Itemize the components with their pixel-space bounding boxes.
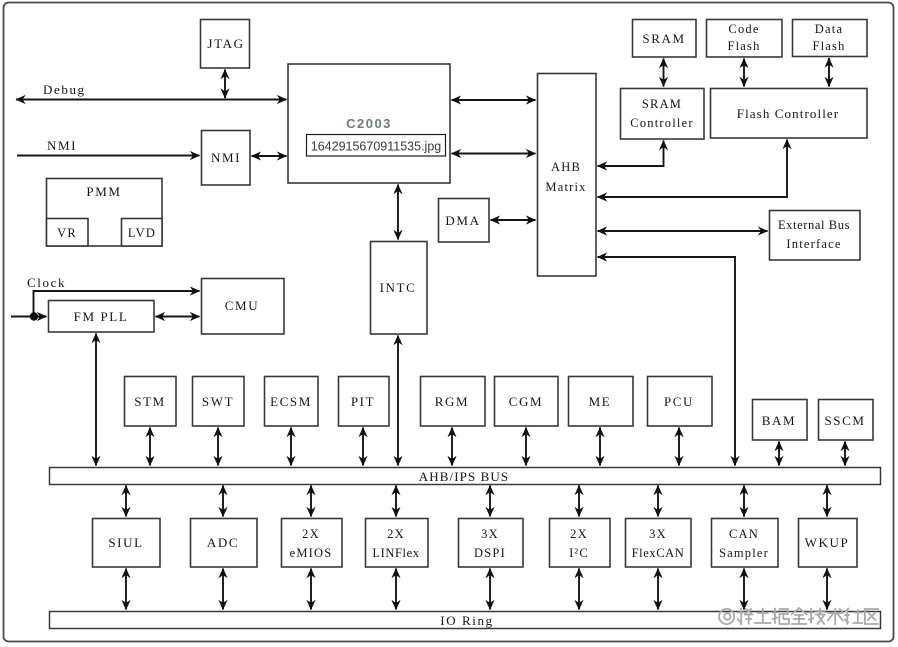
wire IPS bus to FlexCAN bbox=[657, 486, 659, 517]
block 2X LINFlex bbox=[366, 519, 429, 568]
svg-text:AHB/IPS BUS: AHB/IPS BUS bbox=[419, 469, 510, 484]
wire SRAM to SRAM Controller bbox=[663, 59, 665, 87]
svg-text:AHB: AHB bbox=[551, 160, 581, 174]
block WKUP bbox=[799, 519, 858, 568]
svg-text:Flash: Flash bbox=[727, 39, 760, 53]
svg-text:Interface: Interface bbox=[786, 237, 841, 251]
wire SSCM to IPS bus bbox=[844, 442, 846, 466]
bus IO Ring bar bbox=[50, 612, 881, 629]
svg-text:3X: 3X bbox=[481, 527, 499, 541]
wire BAM to IPS bus bbox=[778, 442, 780, 466]
wire JTAG to Debug bus bbox=[224, 70, 226, 99]
wire SRAM Controller to AHB bbox=[598, 141, 664, 167]
wire IPS bus to WKUP bbox=[826, 486, 828, 517]
block 3X DSPI bbox=[459, 519, 524, 568]
wire IPS bus to CAN Sampler bbox=[743, 486, 745, 517]
block ECSM bbox=[265, 377, 319, 427]
svg-text:SSCM: SSCM bbox=[824, 413, 865, 428]
svg-text:Clock: Clock bbox=[27, 275, 66, 290]
wire ME to IPS bus bbox=[599, 428, 601, 466]
block CMU bbox=[202, 279, 285, 335]
wire AHB to External Bus Interface bbox=[598, 230, 768, 232]
wire FMPLL to IPS bus bbox=[95, 334, 97, 466]
wire NMI input bbox=[17, 155, 200, 157]
wire PCU to IPS bus bbox=[678, 428, 680, 466]
block 2X eMIOS bbox=[282, 519, 343, 568]
svg-text:RGM: RGM bbox=[435, 394, 469, 409]
svg-text:CMU: CMU bbox=[225, 298, 259, 313]
wire IPS bus to eMIOS bbox=[310, 486, 312, 517]
wire C2003 to INTC bbox=[397, 185, 399, 240]
svg-text:eMIOS: eMIOS bbox=[290, 546, 333, 560]
wire FMPLL to CMU bbox=[156, 316, 200, 318]
wire SIUL to IO Ring bbox=[125, 569, 127, 610]
svg-text:External Bus: External Bus bbox=[778, 218, 850, 232]
svg-text:Code: Code bbox=[728, 22, 759, 36]
svg-text:Flash Controller: Flash Controller bbox=[737, 106, 839, 121]
bus AHB/IPS BUS bar bbox=[50, 468, 881, 485]
svg-text:Flash: Flash bbox=[812, 39, 845, 53]
wire CAN Sampler to IO Ring bbox=[743, 569, 745, 610]
svg-text:SRAM: SRAM bbox=[642, 31, 685, 46]
wire Code Flash to Flash Controller bbox=[743, 59, 745, 87]
wire NMI to C2003 bbox=[252, 155, 287, 157]
wire AHB to IPS bus riser bbox=[598, 257, 736, 466]
svg-text:PMM: PMM bbox=[86, 184, 121, 199]
block LVD bbox=[122, 219, 163, 247]
svg-text:Matrix: Matrix bbox=[545, 180, 586, 194]
wire C2003 to AHB lower bbox=[452, 153, 536, 155]
wire CGM to IPS bus bbox=[525, 428, 527, 466]
wire DSPI to IO Ring bbox=[489, 569, 491, 610]
wire Debug bus bbox=[16, 99, 287, 101]
svg-text:FlexCAN: FlexCAN bbox=[632, 546, 685, 560]
block ME bbox=[569, 377, 634, 427]
watermark juejin community bbox=[719, 608, 878, 625]
wire RGM to IPS bus bbox=[451, 428, 453, 466]
svg-text:BAM: BAM bbox=[762, 413, 796, 428]
wire PIT to IPS bus bbox=[362, 428, 364, 466]
svg-text:1642915670911535.jpg: 1642915670911535.jpg bbox=[311, 140, 442, 154]
wire Flash Controller to AHB bbox=[598, 140, 788, 198]
block C2003 core bbox=[288, 64, 450, 183]
wire ECSM to IPS bus bbox=[290, 428, 292, 466]
block RGM bbox=[421, 377, 486, 427]
block BAM bbox=[753, 400, 808, 441]
block PMM bbox=[47, 179, 163, 247]
block SRAM Controller bbox=[621, 89, 705, 140]
block STM bbox=[125, 377, 177, 427]
label broken image filename bbox=[307, 135, 446, 157]
svg-text:WKUP: WKUP bbox=[805, 535, 850, 550]
wire crystal input bbox=[11, 316, 47, 318]
svg-text:2X: 2X bbox=[387, 527, 405, 541]
block JTAG bbox=[201, 20, 250, 69]
wire ADC to IO Ring bbox=[222, 569, 224, 610]
svg-text:STM: STM bbox=[134, 394, 166, 409]
block DMA bbox=[439, 199, 490, 243]
svg-text:3X: 3X bbox=[649, 527, 667, 541]
wire eMIOS to IO Ring bbox=[310, 569, 312, 610]
wire IPS bus to ADC bbox=[222, 486, 224, 517]
svg-text:INTC: INTC bbox=[380, 280, 417, 295]
wire Data Flash to Flash Controller bbox=[828, 58, 830, 87]
svg-text:FM PLL: FM PLL bbox=[74, 309, 129, 324]
block SIUL bbox=[93, 519, 161, 568]
wire IPS bus to I2C bbox=[578, 486, 580, 517]
svg-text:NMI: NMI bbox=[47, 138, 77, 153]
svg-text:C2003: C2003 bbox=[346, 116, 392, 131]
svg-text:SRAM: SRAM bbox=[642, 97, 682, 111]
svg-text:ADC: ADC bbox=[207, 535, 239, 550]
block AHB Matrix bbox=[538, 74, 597, 277]
svg-text:2X: 2X bbox=[302, 527, 320, 541]
svg-text:Data: Data bbox=[815, 22, 843, 36]
svg-text:2X: 2X bbox=[570, 527, 588, 541]
wire INTC to IPS bus bbox=[397, 336, 399, 466]
svg-text:LVD: LVD bbox=[128, 226, 156, 240]
svg-text:CAN: CAN bbox=[729, 527, 759, 541]
block SWT bbox=[193, 377, 245, 427]
wire IPS bus to LINFlex bbox=[395, 486, 397, 517]
wire IPS bus to SIUL bbox=[125, 486, 127, 517]
svg-text:SWT: SWT bbox=[202, 394, 234, 409]
block PIT bbox=[339, 377, 390, 427]
wire DMA to AHB bbox=[491, 219, 536, 221]
svg-text:SIUL: SIUL bbox=[108, 535, 143, 550]
block INTC bbox=[371, 242, 428, 335]
block CGM bbox=[495, 377, 559, 427]
svg-text:PIT: PIT bbox=[351, 394, 375, 409]
svg-text:DMA: DMA bbox=[445, 213, 480, 228]
block Data Flash bbox=[793, 20, 868, 57]
svg-text:I²C: I²C bbox=[569, 546, 589, 560]
svg-text:Sampler: Sampler bbox=[719, 546, 769, 560]
wire STM to IPS bus bbox=[149, 428, 151, 466]
block External Bus Interface bbox=[770, 211, 861, 261]
svg-text:Debug: Debug bbox=[43, 82, 86, 97]
block ADC bbox=[191, 519, 258, 568]
wire IPS bus to DSPI bbox=[489, 486, 491, 517]
svg-text:LINFlex: LINFlex bbox=[372, 546, 419, 560]
wire C2003 to AHB upper bbox=[452, 99, 536, 101]
wire SWT to IPS bus bbox=[217, 428, 219, 466]
block Code Flash bbox=[707, 20, 783, 58]
svg-text:Controller: Controller bbox=[630, 116, 693, 130]
svg-text:VR: VR bbox=[57, 226, 77, 240]
block SRAM bbox=[633, 20, 697, 58]
wire FlexCAN to IO Ring bbox=[657, 569, 659, 610]
svg-text:NMI: NMI bbox=[211, 150, 241, 165]
wire Clock to CMU bbox=[34, 291, 200, 317]
block Flash Controller bbox=[711, 89, 868, 139]
svg-text:JTAG: JTAG bbox=[207, 36, 244, 51]
svg-text:CGM: CGM bbox=[509, 394, 543, 409]
block PCU bbox=[648, 377, 713, 427]
wire I2C to IO Ring bbox=[578, 569, 580, 610]
svg-text:ME: ME bbox=[589, 394, 612, 409]
block NMI bbox=[202, 131, 251, 186]
svg-text:DSPI: DSPI bbox=[474, 546, 506, 560]
svg-text:IO Ring: IO Ring bbox=[440, 613, 493, 628]
block 2X I2C bbox=[550, 519, 611, 568]
wire WKUP to IO Ring bbox=[826, 569, 828, 610]
svg-text:PCU: PCU bbox=[664, 394, 694, 409]
block FMPLL bbox=[49, 301, 155, 333]
wire LINFlex to IO Ring bbox=[395, 569, 397, 610]
block CAN Sampler bbox=[712, 519, 779, 568]
block SSCM bbox=[819, 400, 874, 441]
node clock junction bbox=[30, 312, 38, 320]
block 3X FlexCAN bbox=[626, 519, 692, 568]
block VR bbox=[47, 219, 89, 247]
svg-text:ECSM: ECSM bbox=[270, 394, 312, 409]
